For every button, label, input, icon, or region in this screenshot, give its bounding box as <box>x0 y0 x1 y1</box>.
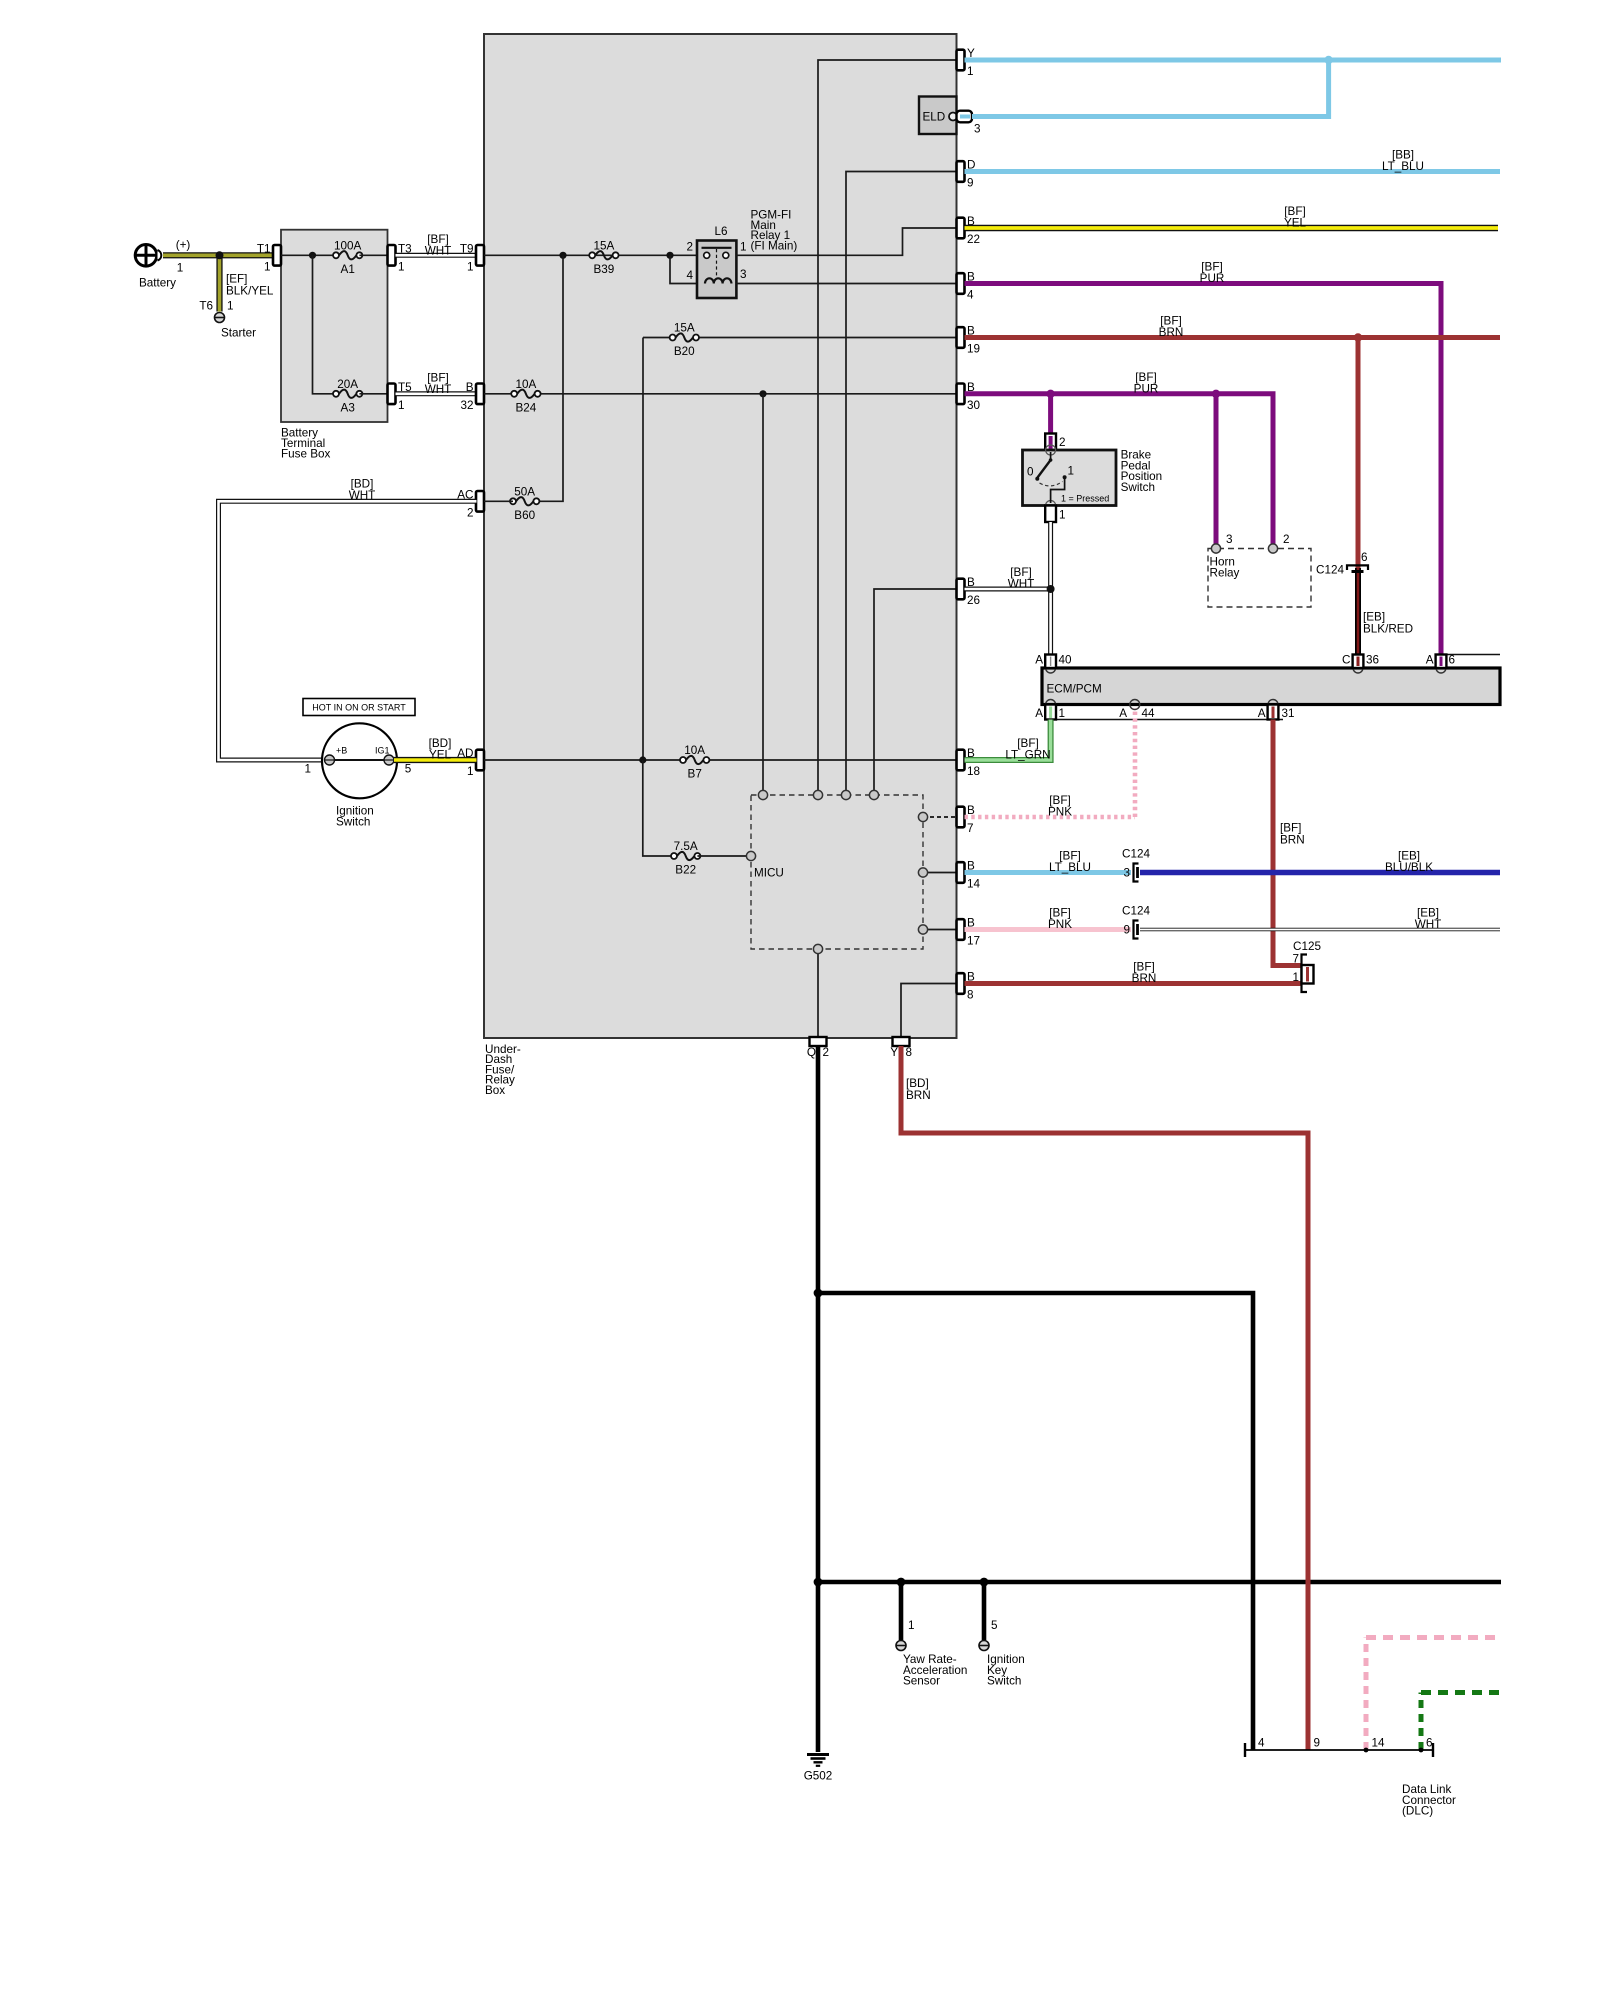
wire B26 [BF] WHT <box>965 587 1051 592</box>
label [BF] WHT <box>1008 566 1035 591</box>
svg-text:T9: T9 <box>460 242 474 255</box>
node AD junction <box>639 756 646 763</box>
connector B 30 <box>957 381 981 412</box>
ECM pin A44 <box>1119 700 1155 721</box>
label [EB] BLK/RED <box>1363 611 1413 636</box>
wire B8 internal to Y8 <box>901 984 957 1039</box>
node T9/B60 branch <box>559 252 566 259</box>
svg-text:(FI Main): (FI Main) <box>751 239 798 252</box>
label [BD] YEL <box>429 737 452 762</box>
wire battery junction down to starter [EF] BLK/YEL <box>216 255 222 311</box>
svg-text:1: 1 <box>1059 509 1066 522</box>
wire B60 to AC <box>484 500 513 502</box>
svg-text:Switch: Switch <box>336 815 370 828</box>
svg-text:4: 4 <box>686 269 693 282</box>
wire IG1 to AD [BD] YEL <box>394 757 477 763</box>
svg-text:8: 8 <box>906 1046 913 1059</box>
wire fuse A1 to T3 <box>359 254 387 256</box>
svg-text:15A: 15A <box>674 322 695 335</box>
wire B19 [BF] BRN <box>965 335 1501 340</box>
ELD unit <box>919 97 957 135</box>
svg-text:3: 3 <box>974 123 981 136</box>
svg-text:LT_GRN: LT_GRN <box>1005 749 1050 762</box>
wire relay pin1 to B22 <box>736 228 956 255</box>
svg-text:A: A <box>1035 654 1043 667</box>
svg-text:A: A <box>1035 707 1043 720</box>
wire BRN down to C124 <box>1356 338 1361 570</box>
svg-text:BLU/BLK: BLU/BLK <box>1385 861 1433 874</box>
label PGM-FI Main Relay 1 <box>751 209 798 253</box>
label Brake Pedal Position Switch <box>1121 449 1163 494</box>
wire A1 to B18 [BF] LT_GRN <box>965 720 1051 761</box>
label [BF] BRN <box>1159 315 1184 340</box>
svg-text:10A: 10A <box>684 744 705 757</box>
wire Q2 to G502 thick black <box>816 1046 821 1752</box>
svg-text:PUR: PUR <box>1200 272 1225 285</box>
ignition key switch labels <box>987 1619 1025 1688</box>
wire B26 internal <box>874 589 957 795</box>
MICU box <box>751 795 923 949</box>
svg-text:(DLC): (DLC) <box>1402 1805 1433 1818</box>
svg-text:6: 6 <box>1449 654 1456 667</box>
svg-text:2: 2 <box>467 506 474 519</box>
wire fuse A3 to T5 <box>359 393 387 395</box>
wire branch down to MICU pin <box>762 394 764 795</box>
svg-text:Box: Box <box>485 1084 505 1097</box>
fuse B7 10A <box>680 744 709 781</box>
connector B 32 <box>460 381 484 412</box>
svg-text:1: 1 <box>398 399 405 412</box>
wire B8 [BF] BRN <box>965 981 1302 986</box>
label [BF] BRN <box>1132 961 1157 986</box>
wire D9 internal <box>846 172 957 796</box>
wire branch down to fuse B60 <box>536 255 563 501</box>
label [BF] PUR <box>1134 371 1159 396</box>
svg-text:IG1: IG1 <box>375 746 390 756</box>
svg-text:A: A <box>1426 654 1434 667</box>
svg-text:YEL: YEL <box>429 749 452 762</box>
svg-text:14: 14 <box>967 878 981 891</box>
fuse B24 10A <box>511 378 540 415</box>
svg-text:B39: B39 <box>594 263 615 276</box>
label [BF] LT_GRN <box>1005 737 1050 762</box>
svg-text:9: 9 <box>1123 924 1130 937</box>
svg-text:ECM/PCM: ECM/PCM <box>1047 683 1102 696</box>
wire branch down to fuse A3 <box>313 255 337 393</box>
wire Y1 cyan <box>965 58 1502 63</box>
svg-text:B20: B20 <box>674 345 695 358</box>
svg-text:1: 1 <box>1068 465 1075 478</box>
svg-text:9: 9 <box>1314 1737 1321 1750</box>
svg-text:(+): (+) <box>176 238 191 251</box>
svg-text:Battery: Battery <box>139 276 176 289</box>
ECM top bracket line <box>1444 654 1500 656</box>
wire MICU to B14 <box>923 872 957 874</box>
wire relay pin3 to B4 <box>736 283 956 285</box>
svg-text:A3: A3 <box>341 401 355 414</box>
wire MICU to B7 dashed <box>923 816 957 818</box>
label [BF] BRN vertical <box>1280 822 1305 847</box>
svg-text:3: 3 <box>740 268 747 281</box>
under-dash fuse/relay box <box>484 34 957 1097</box>
svg-text:WHT: WHT <box>425 383 452 396</box>
svg-text:7.5A: 7.5A <box>674 840 698 853</box>
battery terminal fuse box <box>281 230 388 461</box>
ECM/PCM box <box>1042 668 1500 705</box>
label [EF] BLK/YEL <box>226 272 274 297</box>
label Data Link Connector <box>1402 1783 1456 1818</box>
wire PUR branch to brake switch pin 2 <box>1048 394 1053 437</box>
wire PUR branch to horn relay pin 3 <box>1214 394 1219 545</box>
node WHT junction <box>1047 585 1055 593</box>
svg-text:50A: 50A <box>514 485 535 498</box>
connector T1 <box>257 242 281 273</box>
ECM bottom bracket line <box>1046 719 1283 721</box>
svg-text:2: 2 <box>686 240 693 253</box>
label [BF] PUR <box>1200 261 1225 286</box>
connector C124 pin 6 <box>1316 551 1368 577</box>
yaw rate sensor labels <box>903 1619 967 1688</box>
svg-text:36: 36 <box>1366 654 1379 667</box>
ELD pin 3 connector stub <box>957 111 981 136</box>
svg-text:26: 26 <box>967 594 980 607</box>
ECM pin A31 <box>1258 700 1295 721</box>
wire branch down to relay pin4 <box>670 255 697 283</box>
svg-text:3: 3 <box>1123 867 1130 880</box>
svg-text:30: 30 <box>967 399 981 412</box>
svg-text:9: 9 <box>967 177 974 190</box>
label [BD] BRN <box>906 1077 931 1102</box>
yaw rate sensor stub <box>899 1582 904 1640</box>
label [BD] WHT <box>349 478 376 503</box>
svg-text:100A: 100A <box>334 239 362 252</box>
svg-text:22: 22 <box>967 233 980 246</box>
svg-text:3: 3 <box>1226 533 1233 546</box>
node cyan junction <box>1324 56 1332 64</box>
wire B20 fuse line to B19 <box>643 337 673 339</box>
connector B 22 <box>957 215 981 246</box>
svg-text:+B: +B <box>336 746 347 756</box>
svg-text:B7: B7 <box>688 768 702 781</box>
ECM pin A40 <box>1035 654 1072 674</box>
svg-text:WHT: WHT <box>349 489 376 502</box>
svg-text:32: 32 <box>460 399 473 412</box>
svg-text:A: A <box>1258 707 1266 720</box>
node B24 branch <box>759 390 766 397</box>
svg-text:G502: G502 <box>804 1770 833 1783</box>
fuse B20 15A <box>670 322 699 359</box>
svg-text:19: 19 <box>967 343 980 356</box>
starter terminal T6 <box>215 313 225 323</box>
svg-text:1: 1 <box>740 240 747 253</box>
svg-text:20A: 20A <box>337 378 358 391</box>
svg-text:1: 1 <box>1059 707 1066 720</box>
ignition key switch terminal <box>979 1641 989 1651</box>
wire T9 to relay pin2 <box>484 254 697 256</box>
svg-text:MICU: MICU <box>754 867 784 880</box>
label [EB] BLU/BLK <box>1385 850 1433 875</box>
wire Y1 internal <box>818 60 957 795</box>
ECM pin A1 <box>1035 700 1065 721</box>
node PUR junction brake <box>1046 390 1054 398</box>
node relay branch <box>666 252 673 259</box>
node junction to A3 branch <box>309 252 316 259</box>
data link connector DLC <box>1245 1737 1433 1758</box>
fuse A1 100A <box>333 239 362 275</box>
svg-text:1: 1 <box>1292 971 1299 984</box>
svg-text:L6: L6 <box>714 225 727 238</box>
svg-text:T1: T1 <box>257 242 271 255</box>
connector C124 pin 9 <box>1122 905 1150 939</box>
label [BF] WHT <box>425 233 452 257</box>
svg-text:C124: C124 <box>1122 905 1150 918</box>
connector T5 <box>388 381 413 412</box>
label [BB] LT_BLU <box>1382 149 1424 174</box>
connector AD 1 <box>457 747 484 778</box>
label [BF] LT_BLU <box>1049 850 1091 875</box>
svg-text:BRN: BRN <box>1132 972 1157 985</box>
connector Y 1 <box>957 47 976 78</box>
wire brake pin1 WHT down to A40 <box>1048 522 1053 661</box>
wire C124 to right [EB] BLU/BLK <box>1140 870 1500 875</box>
hot in on or start box <box>303 699 415 716</box>
ignition switch <box>304 723 411 798</box>
wire B7 to A44 [BF] PNK dashed <box>965 815 1136 820</box>
svg-text:BRN: BRN <box>1159 326 1184 339</box>
wire black branch right at 1582 <box>818 1580 1501 1585</box>
svg-text:17: 17 <box>967 935 980 948</box>
battery <box>135 238 191 289</box>
svg-text:Starter: Starter <box>221 327 256 340</box>
label [BF] YEL <box>1284 205 1307 230</box>
svg-text:2: 2 <box>1283 533 1290 546</box>
svg-text:BLK/YEL: BLK/YEL <box>226 284 274 297</box>
svg-text:T6: T6 <box>199 300 213 313</box>
connector B 18 <box>957 747 981 778</box>
connector T9 <box>460 242 484 273</box>
wire C124 to right [EB] WHT <box>1140 928 1500 932</box>
svg-text:C124: C124 <box>1122 848 1150 861</box>
svg-text:Relay: Relay <box>1210 566 1240 579</box>
fuse B60 50A <box>510 485 539 522</box>
wire battery to T1 [EF] BLK/YEL <box>163 252 274 258</box>
label Horn Relay <box>1210 556 1240 580</box>
fuse A3 20A <box>333 378 362 415</box>
svg-text:2: 2 <box>823 1046 830 1059</box>
svg-text:B24: B24 <box>516 401 537 414</box>
connector D 9 <box>957 159 976 190</box>
svg-text:WHT: WHT <box>1008 578 1035 591</box>
connector B 17 <box>957 917 981 948</box>
svg-text:C: C <box>1342 654 1350 667</box>
svg-text:C125: C125 <box>1293 940 1321 953</box>
wire AC to ignition +B [BD] WHT <box>219 501 477 760</box>
svg-text:C124: C124 <box>1316 564 1344 577</box>
connector B 4 <box>957 271 976 302</box>
svg-text:0: 0 <box>1027 466 1034 479</box>
wire T3 to T9 [BF] WHT <box>396 253 477 258</box>
svg-text:YEL: YEL <box>1284 217 1307 230</box>
svg-text:4: 4 <box>1258 1737 1265 1750</box>
svg-text:Fuse Box: Fuse Box <box>281 448 331 461</box>
connector Q 2 bottom <box>807 1037 829 1059</box>
svg-text:BLK/RED: BLK/RED <box>1363 623 1413 636</box>
ignition key switch stub <box>982 1582 987 1640</box>
svg-text:WHT: WHT <box>1415 918 1442 931</box>
connector Y 8 bottom <box>890 1037 912 1059</box>
svg-text:2: 2 <box>1059 436 1066 449</box>
svg-text:PNK: PNK <box>1048 918 1072 931</box>
svg-text:6: 6 <box>1426 1737 1433 1750</box>
svg-text:LT_BLU: LT_BLU <box>1382 160 1424 173</box>
wire A31 to C125 [BF] BRN <box>1273 720 1301 966</box>
svg-text:BRN: BRN <box>1280 834 1305 847</box>
svg-text:1: 1 <box>264 260 271 273</box>
wire B14 [BF] LT_BLU <box>965 870 1132 875</box>
node battery junction <box>216 251 224 259</box>
relay L6 PGM-FI main relay <box>686 225 746 298</box>
svg-text:LT_BLU: LT_BLU <box>1049 861 1091 874</box>
wire T5 to B32 [BF] WHT <box>396 391 477 396</box>
wire B4 [BF] PUR to A6 <box>965 284 1442 662</box>
svg-text:18: 18 <box>967 765 980 778</box>
node black junction <box>814 1289 823 1298</box>
brake switch pin 2 connector <box>1045 434 1065 451</box>
wire B30 [BF] PUR <box>965 394 1274 545</box>
label [EB] WHT <box>1415 907 1442 932</box>
svg-text:1: 1 <box>304 763 311 776</box>
svg-text:Sensor: Sensor <box>903 1675 940 1688</box>
wire MICU bottom to Q2 <box>817 949 819 1038</box>
connector T3 <box>388 242 412 273</box>
connector B 8 <box>957 971 976 1002</box>
svg-text:1: 1 <box>467 765 474 778</box>
svg-text:8: 8 <box>967 989 974 1002</box>
wire black branch to DLC pin4 <box>818 1293 1253 1750</box>
wire B20 branch down to AD line <box>642 338 644 761</box>
svg-text:44: 44 <box>1142 707 1156 720</box>
MICU pins <box>746 790 927 953</box>
fuse B39 15A <box>589 239 618 275</box>
wire B32 to B30 <box>484 393 514 395</box>
node black junction 2 <box>814 1578 823 1587</box>
svg-text:Switch: Switch <box>987 1675 1021 1688</box>
svg-text:Switch: Switch <box>1121 481 1155 494</box>
svg-text:BRN: BRN <box>906 1089 931 1102</box>
wire ELD pin3 cyan to Y1 <box>972 60 1329 117</box>
label [BF] PNK <box>1048 907 1072 932</box>
svg-text:1: 1 <box>398 260 405 273</box>
wire Y8 to DLC pin9 [BD] BRN <box>901 1046 1308 1750</box>
connector B 7 <box>957 804 976 835</box>
svg-text:PNK: PNK <box>1048 806 1072 819</box>
svg-text:1 = Pressed: 1 = Pressed <box>1061 494 1109 504</box>
svg-text:ELD: ELD <box>923 111 946 124</box>
svg-text:B: B <box>466 381 474 394</box>
wire fuse B22 to MICU <box>697 855 751 857</box>
brake pedal position switch box <box>1023 445 1117 511</box>
brake switch pin 1 connector <box>1045 506 1065 523</box>
svg-text:Y: Y <box>890 1046 898 1059</box>
svg-text:6: 6 <box>1361 551 1368 564</box>
ECM pin C36 <box>1342 654 1379 674</box>
svg-text:B60: B60 <box>514 509 535 522</box>
wire MICU to B17 <box>923 929 957 931</box>
wire B22 [BF] YEL <box>965 225 1499 231</box>
label [BF] WHT <box>425 371 452 396</box>
connector C124 pin 3 <box>1122 848 1150 882</box>
svg-text:10A: 10A <box>516 378 537 391</box>
wire BLK/RED C124 to C36 <box>1355 568 1361 661</box>
svg-text:A1: A1 <box>341 263 355 276</box>
svg-text:Q: Q <box>807 1046 816 1059</box>
svg-text:1: 1 <box>467 260 474 273</box>
node BRN junction <box>1354 333 1362 341</box>
wire D9 [BB] LT_BLU <box>965 169 1501 174</box>
fuse B22 7.5A <box>671 840 700 877</box>
svg-text:31: 31 <box>1282 707 1295 720</box>
svg-text:1: 1 <box>908 1619 915 1632</box>
connector B 19 <box>957 325 981 356</box>
wire T1 to fuse A1 <box>281 254 336 256</box>
wire B17 [BF] PNK <box>965 927 1132 932</box>
wire DLC pin6 GRN dashed <box>1419 1693 1424 1751</box>
wire junction down to fuse B22 <box>643 760 674 856</box>
ground G502 <box>804 1755 833 1783</box>
svg-text:5: 5 <box>991 1619 998 1632</box>
svg-text:40: 40 <box>1059 654 1073 667</box>
svg-text:7: 7 <box>967 822 974 835</box>
svg-text:HOT IN ON OR START: HOT IN ON OR START <box>312 703 406 713</box>
svg-text:14: 14 <box>1372 1737 1386 1750</box>
horn relay box <box>1208 533 1311 607</box>
svg-text:4: 4 <box>967 289 974 302</box>
svg-text:1: 1 <box>227 300 234 313</box>
svg-text:PUR: PUR <box>1134 382 1159 395</box>
connector C125 pins 7/1 <box>1292 940 1321 992</box>
label [BF] PNK <box>1048 794 1072 819</box>
wire AD line to B18 with fuse B7 <box>484 759 683 761</box>
yaw rate sensor terminal <box>896 1641 906 1651</box>
starter labels <box>199 300 256 340</box>
svg-text:A: A <box>1119 707 1127 720</box>
svg-text:5: 5 <box>405 763 412 776</box>
svg-text:7: 7 <box>1292 953 1299 966</box>
svg-text:1: 1 <box>177 262 184 275</box>
ignition switch label <box>336 805 374 829</box>
connector B 26 <box>957 576 981 607</box>
svg-text:15A: 15A <box>594 239 615 252</box>
connector AC 2 <box>457 488 484 519</box>
node PUR junction horn <box>1212 390 1220 398</box>
ECM pin A6 <box>1426 654 1455 674</box>
wire DLC pin14 PNK dashed <box>1364 1638 1369 1751</box>
svg-text:WHT: WHT <box>425 244 452 257</box>
connector B 14 <box>957 860 981 891</box>
svg-text:1: 1 <box>967 65 974 78</box>
svg-text:B22: B22 <box>675 864 696 877</box>
